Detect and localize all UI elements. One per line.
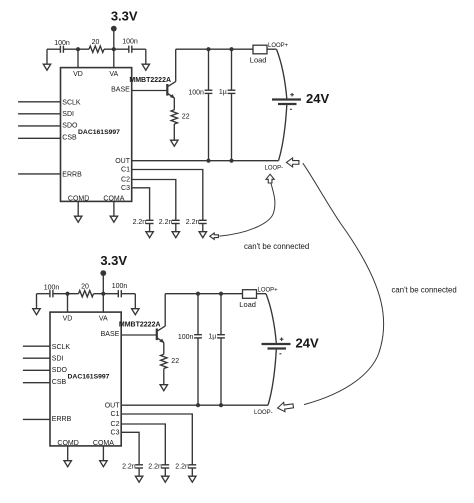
svg-text:20: 20	[92, 39, 100, 46]
svg-text:3.3V: 3.3V	[111, 9, 138, 24]
svg-text:VD: VD	[73, 71, 83, 78]
svg-text:2.2n: 2.2n	[133, 219, 147, 226]
svg-text:VA: VA	[109, 71, 118, 78]
svg-text:MMBT2222A: MMBT2222A	[129, 77, 171, 84]
svg-text:SCLK: SCLK	[62, 99, 81, 106]
svg-text:100n: 100n	[54, 40, 70, 47]
svg-text:can't be connected: can't be connected	[244, 242, 309, 251]
svg-text:C1: C1	[121, 167, 130, 174]
svg-text:COMA: COMA	[103, 195, 124, 202]
svg-text:LOOP-: LOOP-	[265, 165, 284, 171]
svg-text:C3: C3	[121, 185, 130, 192]
svg-text:CSB: CSB	[62, 135, 77, 142]
svg-text:22: 22	[182, 114, 190, 121]
svg-text:2.2n: 2.2n	[186, 219, 200, 226]
svg-text:2.2n: 2.2n	[159, 219, 173, 226]
svg-text:SDO: SDO	[62, 123, 78, 130]
svg-text:Load: Load	[250, 56, 267, 65]
svg-text:DAC161S997: DAC161S997	[78, 129, 120, 136]
svg-text:OUT: OUT	[115, 158, 131, 165]
svg-text:BASE: BASE	[111, 86, 130, 93]
svg-text:24V: 24V	[306, 91, 329, 106]
svg-text:SDI: SDI	[62, 111, 74, 118]
svg-text:can't be connected: can't be connected	[392, 285, 457, 294]
svg-text:COMD: COMD	[68, 195, 89, 202]
svg-text:ERRB: ERRB	[62, 171, 82, 178]
svg-text:1µ: 1µ	[219, 89, 227, 96]
svg-text:100n: 100n	[122, 38, 138, 45]
svg-text:LOOP+: LOOP+	[268, 43, 289, 49]
svg-text:C2: C2	[121, 177, 130, 184]
svg-text:100n: 100n	[188, 89, 204, 96]
